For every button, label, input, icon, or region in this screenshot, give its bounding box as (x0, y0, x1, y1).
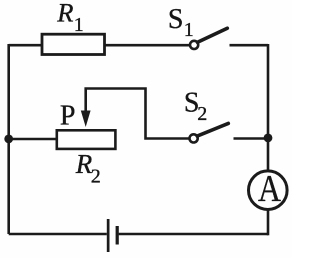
battery long plate (107, 219, 110, 252)
switch S1 blade (198, 28, 228, 42)
ammeter A (248, 171, 287, 210)
wire from left junction to rheostat R2 (9, 138, 57, 141)
wire from switch S2 to right rail (234, 137, 269, 140)
svg-text:S: S (168, 4, 184, 35)
svg-text:1: 1 (74, 14, 84, 36)
wire right rail upper segment (267, 44, 270, 170)
switch S2 blade (197, 123, 228, 136)
svg-text:A: A (258, 168, 281, 210)
wire bottom from battery to right rail (119, 233, 268, 236)
resistor R1 (42, 34, 105, 54)
wire slider P to switch S2 (86, 89, 190, 139)
svg-text:2: 2 (91, 165, 101, 187)
battery short plate (116, 226, 119, 245)
node junction dot right (264, 134, 273, 143)
svg-text:2: 2 (197, 103, 207, 125)
svg-text:P: P (60, 100, 76, 131)
svg-text:1: 1 (184, 19, 194, 41)
switch S1 pivot (190, 41, 198, 49)
wire left rail (7, 44, 10, 234)
wire top-left from left rail to switch S1 (9, 44, 190, 47)
node junction dot left (4, 135, 13, 144)
wire bottom from left rail to battery (9, 233, 107, 236)
rheostat R2 slider arrow (81, 111, 91, 128)
svg-text:R: R (56, 0, 73, 28)
wire right rail lower segment below ammeter (267, 210, 270, 235)
switch S2 pivot (190, 134, 198, 142)
rheostat R2 body (57, 130, 116, 149)
wire top-right from switch S1 to right rail (230, 44, 269, 47)
